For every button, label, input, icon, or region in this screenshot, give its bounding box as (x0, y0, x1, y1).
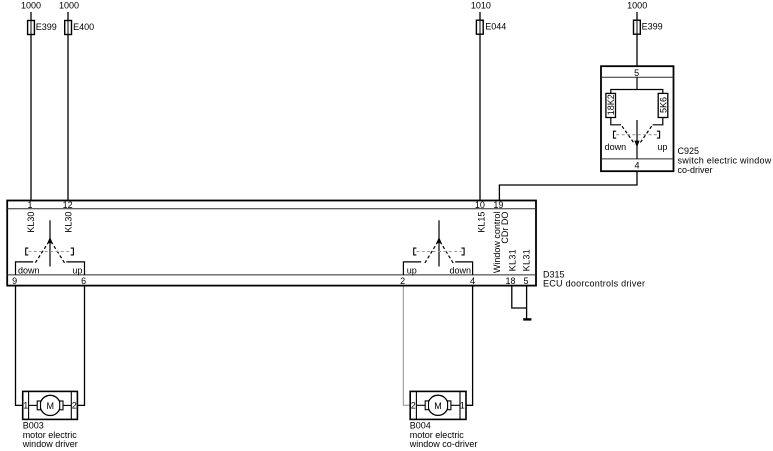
svg-text:18K2: 18K2 (606, 94, 616, 115)
svg-text:down: down (18, 265, 40, 275)
svg-text:1000: 1000 (21, 1, 41, 11)
svg-text:10: 10 (475, 200, 485, 210)
svg-text:5: 5 (634, 68, 639, 78)
svg-text:up: up (407, 265, 417, 275)
svg-text:window co-driver: window co-driver (409, 439, 478, 449)
svg-text:2: 2 (72, 400, 77, 410)
svg-text:4: 4 (634, 161, 639, 171)
svg-text:KL31: KL31 (522, 249, 532, 272)
svg-text:1: 1 (23, 400, 28, 410)
svg-text:window driver: window driver (22, 439, 78, 449)
svg-text:E399: E399 (36, 22, 57, 32)
svg-text:E044: E044 (485, 22, 506, 32)
svg-text:19: 19 (493, 200, 503, 210)
svg-text:KL30: KL30 (26, 212, 36, 233)
svg-text:KL31: KL31 (507, 249, 517, 272)
svg-text:12: 12 (63, 200, 73, 210)
svg-text:2: 2 (400, 276, 405, 286)
svg-text:5K6: 5K6 (658, 97, 668, 113)
svg-text:6: 6 (81, 276, 86, 286)
svg-text:1000: 1000 (59, 1, 79, 11)
svg-text:E400: E400 (73, 22, 94, 32)
svg-text:KL30: KL30 (63, 212, 73, 233)
svg-text:down: down (450, 265, 472, 275)
svg-text:switch electric window: switch electric window (678, 156, 772, 166)
svg-text:1: 1 (460, 400, 465, 410)
svg-text:CDr DO: CDr DO (500, 212, 510, 244)
svg-text:up: up (657, 142, 667, 152)
svg-text:KL15: KL15 (477, 212, 487, 233)
svg-text:1010: 1010 (471, 1, 491, 11)
svg-text:C925: C925 (678, 146, 700, 156)
svg-text:1: 1 (27, 200, 32, 210)
svg-text:5: 5 (523, 276, 528, 286)
svg-text:down: down (605, 142, 627, 152)
svg-text:1000: 1000 (627, 1, 647, 11)
svg-text:up: up (72, 265, 82, 275)
svg-text:18: 18 (505, 276, 515, 286)
svg-text:2: 2 (411, 400, 416, 410)
svg-text:E399: E399 (642, 22, 663, 32)
svg-text:co-driver: co-driver (678, 165, 713, 175)
svg-text:4: 4 (470, 276, 475, 286)
svg-text:M: M (434, 401, 442, 411)
svg-text:9: 9 (12, 276, 17, 286)
svg-text:ECU doorcontrols driver: ECU doorcontrols driver (543, 279, 645, 289)
svg-text:M: M (46, 401, 54, 411)
